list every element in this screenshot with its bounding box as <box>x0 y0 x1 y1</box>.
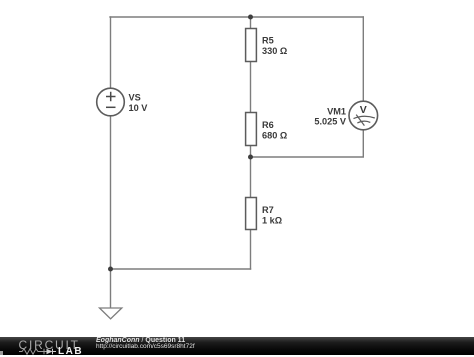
wire R5 top lead <box>250 17 252 29</box>
wire bottom horizontal <box>110 268 251 270</box>
resistor R6 <box>246 113 257 146</box>
svg-text:R5: R5 <box>262 36 274 46</box>
wire R7 bottom lead <box>250 230 252 270</box>
svg-text:5.025 V: 5.025 V <box>314 117 347 127</box>
label VS value <box>129 93 149 113</box>
svg-text:1 kΩ: 1 kΩ <box>262 215 282 225</box>
wire R6 to node <box>250 146 252 198</box>
label R6 value <box>262 120 287 140</box>
resistor R7 <box>246 198 257 230</box>
logo LAB text <box>58 347 83 357</box>
wire left vertical upper <box>110 17 112 88</box>
label VM1 value <box>314 106 347 126</box>
resistor R5 <box>246 29 257 62</box>
wire R5 to R6 <box>250 62 252 113</box>
logo resistor and diode glyph <box>18 348 96 355</box>
svg-text:10 V: 10 V <box>129 103 149 113</box>
voltage source VS <box>97 88 125 116</box>
footer title text <box>96 337 185 344</box>
voltmeter VM1 <box>349 101 378 130</box>
label R7 value <box>262 205 282 225</box>
footer url text <box>96 343 195 350</box>
edge artifact patch <box>0 351 3 355</box>
ground <box>100 308 122 319</box>
svg-text:R7: R7 <box>262 205 274 215</box>
CircuitLab logo wordmark <box>19 339 80 351</box>
svg-text:V: V <box>360 104 367 116</box>
node junction middle <box>248 155 253 160</box>
wire top horizontal <box>110 16 363 18</box>
svg-text:R6: R6 <box>262 120 274 130</box>
node junction top <box>248 15 253 20</box>
wire right vertical upper <box>362 17 364 101</box>
svg-text:330 Ω: 330 Ω <box>262 46 287 56</box>
wire voltmeter bottom to node <box>251 130 364 157</box>
wire ground lead <box>110 269 112 308</box>
svg-text:VM1: VM1 <box>327 106 346 116</box>
svg-text:680 Ω: 680 Ω <box>262 130 287 140</box>
footer bar <box>0 337 474 355</box>
node junction bottom <box>108 267 113 272</box>
wire left vertical lower <box>110 116 112 269</box>
label R5 value <box>262 36 287 56</box>
svg-text:VS: VS <box>129 93 141 103</box>
